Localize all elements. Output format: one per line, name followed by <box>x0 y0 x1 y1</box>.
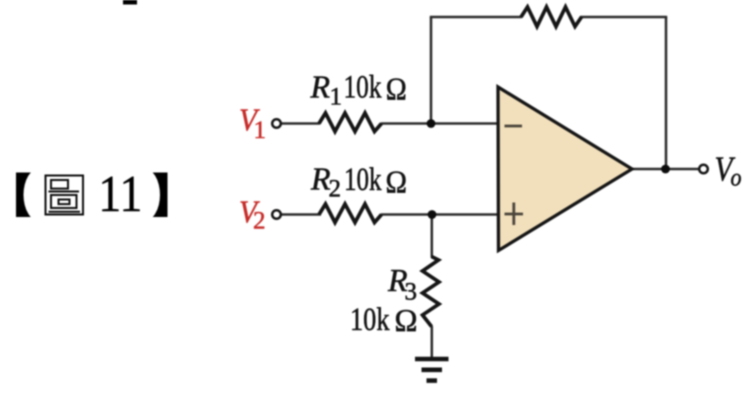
svg-text:1: 1 <box>330 84 343 111</box>
svg-text:1: 1 <box>254 117 267 144</box>
svg-text:2: 2 <box>253 208 266 235</box>
svg-text:10k: 10k <box>344 162 382 198</box>
svg-text:11: 11 <box>98 166 142 223</box>
svg-text:10k: 10k <box>350 302 390 338</box>
svg-text:10k: 10k <box>344 70 382 106</box>
svg-text:R: R <box>310 69 331 105</box>
svg-text:2: 2 <box>329 176 342 203</box>
svg-text:o: o <box>731 165 742 192</box>
svg-text:Ω: Ω <box>386 164 408 200</box>
svg-text:Ω: Ω <box>386 71 407 107</box>
svg-text:Ω: Ω <box>395 302 418 338</box>
